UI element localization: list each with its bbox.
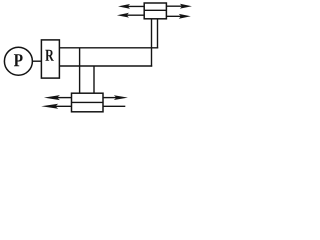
top table body <box>144 3 166 19</box>
bottom table upper-left arrow line <box>56 97 72 99</box>
top table lower-right arrow line <box>166 15 182 17</box>
arrowhead top upper-right <box>180 4 192 9</box>
arrowhead top upper-left <box>118 4 130 9</box>
top table lower-left arrow line <box>126 14 145 16</box>
wire stem: bottom table right leg from wire 2 <box>93 66 95 93</box>
arrowhead top lower-left <box>117 13 129 18</box>
bottom table upper-right arrow line <box>103 97 117 99</box>
arrowhead bottom upper-right <box>114 95 128 100</box>
letter P <box>14 54 23 66</box>
arrowhead bottom upper-left <box>44 95 60 100</box>
letter R <box>45 50 54 61</box>
top table upper-left arrow line <box>127 5 145 7</box>
wire 1 upper horizontal from R box to top-right stem <box>59 47 158 49</box>
bottom table body <box>72 93 104 112</box>
bottom table lower-right plain line no head <box>103 105 125 107</box>
top table upper-right arrow line <box>166 5 183 7</box>
wire 2 lower horizontal from R box to top-left stem <box>59 65 152 67</box>
wire stem: top table left leg down to wire 2 <box>151 19 153 67</box>
arrowhead bottom lower-left <box>41 104 58 109</box>
wire P to R <box>33 60 42 62</box>
wire stem: top table right leg down to wire 1 <box>157 19 159 49</box>
bottom table divider <box>72 101 104 103</box>
top table divider <box>144 9 166 11</box>
bottom table lower-left arrow line <box>53 105 72 107</box>
pump P circle <box>4 47 32 75</box>
arrowhead top lower-right <box>179 14 191 19</box>
wire stem: bottom table left leg from wire 1 <box>79 48 81 93</box>
valve R box <box>41 40 59 78</box>
